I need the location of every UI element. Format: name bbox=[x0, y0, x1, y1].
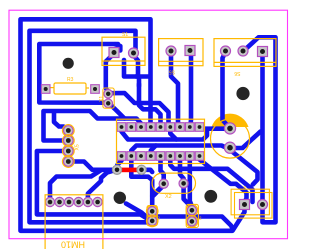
resistor R3 pads bbox=[41, 85, 99, 94]
connector X1 pads (two round, stacked) bbox=[104, 90, 113, 108]
svg-text:R3: R3 bbox=[67, 77, 74, 83]
capacitor C1 silkscreen filled wedge bbox=[212, 114, 249, 127]
silkscreen C1 circle bbox=[211, 119, 250, 158]
wire T8: X1 pad2 short diag joining hook bbox=[111, 105, 125, 119]
svg-text:X5: X5 bbox=[75, 144, 81, 150]
capacitor C2 pads bbox=[148, 207, 157, 226]
wire T25: HM10 pad5 climbing diagonal to jumper-left junction bbox=[88, 171, 112, 200]
wire T20: staircase s1 from IC bottom pad9 to J square pad bbox=[200, 157, 247, 203]
silkscreen S1 box bbox=[102, 37, 145, 65]
IC pad drill dots bbox=[120, 125, 202, 158]
wire T6: R3 left pad stub joining ring3 vertical bbox=[39, 86, 43, 91]
wire T16: C1 pad2 right diag up to right-side vertical A bbox=[231, 132, 261, 149]
wire T21: staircase s2 from IC bottom pad6 to J area bbox=[170, 157, 252, 202]
silkscreen R3 body bbox=[51, 83, 90, 94]
wire T3 third ring: S1 square pad feed, left vertical, corner to IC pad6 feed line bbox=[39, 44, 120, 103]
silkscreen HM10 box bbox=[45, 195, 103, 249]
wire T28: IC bottom pad5 down to X2 pad1 bbox=[161, 157, 164, 182]
wire T23: X5 pad4 to jumper left pad bbox=[71, 162, 113, 170]
silkscreen S6 box bbox=[214, 39, 276, 67]
mounting hole bottom-left bbox=[114, 192, 126, 204]
wire T13: IC channel A with stubs bbox=[122, 131, 208, 140]
connector X5 pads (column of four round) bbox=[64, 126, 74, 167]
silkscreen S5 box bbox=[159, 39, 203, 66]
pads: IC bottom row (9 square pads) bbox=[117, 152, 204, 161]
wire T19: S6 pad1 straight down into C1 pad1 bbox=[223, 52, 231, 128]
pads: IC top row J2 (9 square pads) bbox=[117, 123, 204, 132]
silkscreen X5 pad rings and label bbox=[62, 125, 74, 168]
mounting hole top-right bbox=[236, 87, 249, 100]
wire T10: S1 round pad lower exit, junction run to outer ring bbox=[124, 57, 150, 87]
svg-text:X2: X2 bbox=[165, 194, 172, 200]
silkscreen C2 box and label bbox=[146, 206, 158, 227]
svg-text:S1: S1 bbox=[122, 32, 128, 38]
wire T27: IC bottom pad2 down, right, down to C2 top pad with X2 pad1 branch bbox=[131, 157, 162, 210]
svg-text:S6: S6 bbox=[234, 70, 240, 76]
wire T2 second ring: S1 round pad up over left side down to C2 lower pad bbox=[30, 31, 149, 223]
wire T15: IC top pad9 to C1 pad1 bbox=[201, 126, 229, 131]
wire T32: X2 pad1 diag down-left to C2 top feed bbox=[153, 187, 163, 197]
wire T26: IC bottom pad1 short diag down to jumper left pad bbox=[117, 157, 121, 169]
wire T29: IC bottom pad7 down to X2 pad2 bbox=[180, 157, 184, 182]
module HM10 pads (six round) bbox=[45, 197, 102, 206]
wire T11: S5 round pad jog down to IC top pad7 bbox=[171, 52, 180, 126]
wire T24: HM10 pad1 up to jumper-left junction bbox=[50, 170, 101, 200]
mounting hole top-left bbox=[63, 58, 74, 69]
wire T17: right vertical A from S6 pad3 down to J round pad bbox=[260, 53, 265, 203]
wire T4: X5 pad3 left, down left side, bottom inner run to C2 lower pad bbox=[37, 151, 151, 221]
wire T7: X1 pad1 staircase right to IC top pad6 bbox=[110, 93, 170, 126]
silkscreen X2 stadium and label bbox=[152, 173, 195, 193]
silkscreen IC box bbox=[117, 119, 205, 163]
connector S1 pads bbox=[109, 48, 139, 59]
wire T6b: hook run wrapping X5 pad1 to X5 pad2 and IC top pad3 bbox=[44, 111, 142, 141]
connector J1 pads (bottom right) bbox=[240, 200, 268, 210]
svg-text:S5: S5 bbox=[169, 69, 175, 75]
capacitor C6 pads bbox=[187, 206, 196, 226]
svg-text:X1: X1 bbox=[99, 96, 105, 102]
svg-text:×: × bbox=[243, 186, 247, 192]
wire T30: X2 pad2 down diag to C6 top pad bbox=[184, 185, 192, 208]
capacitor C1 pads bbox=[224, 123, 235, 153]
wire T1 outer ring: IC pad4 up, around left and bottom to J square pad bbox=[21, 19, 245, 231]
connector S5 pads bbox=[166, 46, 195, 57]
wire T5: S1 square pad down to X1 pad1 bbox=[106, 56, 112, 93]
wire T22: C1 pad2 lower diag joining s2 bbox=[232, 152, 258, 185]
wire T6c: X5 pad1 feed from hook bbox=[54, 112, 68, 131]
connector S6 pads bbox=[221, 46, 268, 57]
silkscreen C6 box and label bbox=[186, 204, 198, 227]
wire T18: S6 pad2 diag up and right vertical B down around U-turn to J round pad bbox=[244, 37, 276, 222]
wire T9: inner corner run to IC top pad5 bbox=[139, 84, 161, 126]
silkscreen J1 boxes and polarity mark bbox=[231, 189, 272, 218]
mounting hole bottom-right bbox=[204, 190, 217, 203]
jumper R0 pads bbox=[112, 165, 146, 174]
wire T14: IC channel B into C1 pad2 bbox=[131, 146, 229, 151]
wire T12: S5 square pad straight down to IC top pad8 bbox=[188, 52, 193, 126]
svg-text:HM10: HM10 bbox=[61, 240, 85, 249]
wire T31: IC bottom pad8 down to C6 top pad bbox=[190, 157, 192, 207]
wire T33: mid-bottom run from hole area to right, C6 bottom branch, join outer ring bbox=[126, 204, 233, 229]
red jumper R0 body bbox=[116, 168, 143, 173]
crystal X2 pads bbox=[159, 179, 188, 189]
silkscreen X1 box and label bbox=[103, 88, 114, 108]
